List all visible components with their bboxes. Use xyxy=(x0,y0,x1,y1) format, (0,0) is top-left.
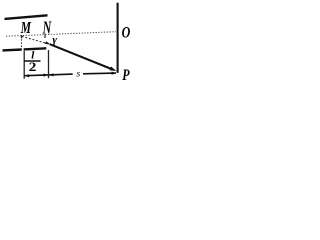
fraction bar of l/2 xyxy=(24,60,40,62)
svg-text:O: O xyxy=(122,24,131,42)
l/2 dim left arrowhead xyxy=(24,74,29,77)
tick below M xyxy=(21,35,23,38)
dashed vertical below M xyxy=(21,39,23,49)
screen vertical line xyxy=(117,3,119,73)
plate lower (right segment) xyxy=(24,48,47,49)
s dim right arrowhead xyxy=(112,72,117,75)
background xyxy=(0,0,135,86)
tick below N xyxy=(44,34,46,38)
arrowhead of dashed diagonal xyxy=(45,41,51,44)
s dim left arrowhead xyxy=(49,73,54,76)
axis dashed line xyxy=(6,32,116,37)
svg-text:P: P xyxy=(122,66,130,84)
arrowhead at P xyxy=(110,67,117,72)
dashed back-extension diagonal xyxy=(22,36,46,43)
s dimension shaft right part xyxy=(83,72,116,75)
extension line right xyxy=(48,50,50,78)
svg-text:s: s xyxy=(76,69,80,79)
trajectory line to P xyxy=(50,44,113,69)
plate lower (left segment) xyxy=(3,48,22,51)
l/2 dim right arrowhead xyxy=(44,74,49,77)
s dimension shaft left part xyxy=(49,73,73,76)
svg-text:N: N xyxy=(42,18,52,38)
svg-text:M: M xyxy=(20,19,32,38)
svg-text:2: 2 xyxy=(29,60,37,75)
plate upper xyxy=(5,15,48,19)
extension line left xyxy=(23,51,25,79)
l/2 dimension shaft xyxy=(25,74,48,77)
